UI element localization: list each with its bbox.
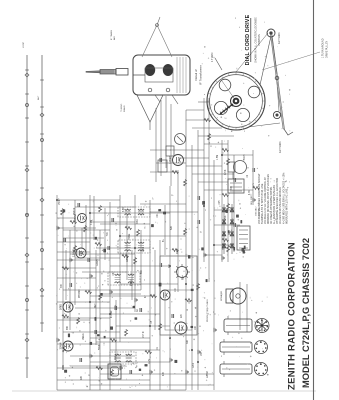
svg-text:100: 100	[175, 287, 177, 292]
svg-text:DET: DET	[95, 303, 97, 308]
svg-text:.02: .02	[189, 300, 191, 304]
svg-text:22K: 22K	[81, 375, 83, 380]
svg-text:1MEG: 1MEG	[83, 333, 85, 340]
svg-text:180: 180	[201, 351, 203, 356]
svg-text:POSITION: POSITION	[258, 34, 261, 46]
svg-text:Detail of: Detail of	[194, 69, 198, 80]
svg-text:.01: .01	[157, 346, 159, 350]
svg-text:DC UNLESS OTHERWISE NOTED.: DC UNLESS OTHERWISE NOTED.	[271, 186, 273, 224]
svg-text:OTHERWISE SPECIFIED. ALL CAPAC: OTHERWISE SPECIFIED. ALL CAPACITOR	[276, 177, 279, 224]
svg-text:1/2 TURN: 1/2 TURN	[277, 32, 281, 44]
svg-text:455 KC: 455 KC	[259, 208, 261, 216]
svg-text:.001: .001	[157, 213, 159, 218]
svg-text:LOOP: LOOP	[23, 41, 25, 48]
svg-text:IF TRANS: IF TRANS	[110, 30, 113, 40]
svg-text:DIAL CORD DRIVE: DIAL CORD DRIVE	[245, 14, 251, 65]
svg-text:OSC: OSC	[137, 219, 139, 224]
svg-text:CON: CON	[63, 365, 65, 370]
svg-text:117V: 117V	[149, 358, 151, 364]
svg-text:1200: 1200	[193, 362, 195, 368]
svg-text:39K: 39K	[187, 339, 189, 344]
svg-text:ANT: ANT	[37, 95, 40, 100]
svg-text:12BE6: 12BE6	[168, 156, 172, 164]
svg-text:.02: .02	[247, 174, 249, 178]
svg-text:270: 270	[169, 263, 171, 268]
svg-text:IF Transformer: IF Transformer	[199, 65, 203, 85]
svg-text:47K: 47K	[163, 371, 165, 376]
svg-text:.05: .05	[151, 320, 153, 324]
svg-text:VOL: VOL	[225, 215, 227, 220]
svg-text:470K: 470K	[225, 169, 227, 175]
svg-text:PHONO: PHONO	[79, 289, 81, 298]
svg-text:VOLTAGES MEASURED FROM TUBE SO: VOLTAGES MEASURED FROM TUBE SOCKET	[258, 173, 261, 224]
svg-text:B+: B+	[163, 238, 165, 242]
svg-text:12BA6: 12BA6	[73, 214, 77, 222]
svg-text:220K: 220K	[177, 248, 179, 254]
svg-text:ZENITH RADIO CORPORATION: ZENITH RADIO CORPORATION	[287, 242, 298, 390]
svg-text:117V: 117V	[253, 183, 255, 188]
svg-text:.005: .005	[219, 200, 221, 205]
svg-text:1.5M: 1.5M	[217, 155, 219, 160]
svg-text:47: 47	[145, 295, 147, 298]
svg-text:ADJ: ADJ	[113, 36, 116, 40]
svg-text:AC: AC	[136, 308, 139, 312]
svg-text:1/2 TURN: 1/2 TURN	[278, 141, 282, 153]
svg-text:150K: 150K	[59, 199, 61, 205]
svg-text:33K: 33K	[231, 185, 233, 190]
svg-text:MINIMUM. NO SIGNAL INPUT. ALL: MINIMUM. NO SIGNAL INPUT. ALL VOLTAGES	[267, 174, 270, 224]
svg-text:OSC ADJ: OSC ADJ	[255, 207, 258, 216]
svg-text:.1: .1	[65, 243, 67, 246]
svg-text:12AV6: 12AV6	[96, 259, 99, 266]
svg-text:.047: .047	[113, 271, 115, 276]
svg-text:SPEAKER: SPEAKER	[220, 290, 223, 301]
svg-text:IF AMP: IF AMP	[110, 310, 113, 318]
svg-text:50C5: 50C5	[244, 154, 246, 160]
svg-text:MEASURED WITH 117V AC LINE.: MEASURED WITH 117V AC LINE.	[286, 188, 289, 224]
svg-text:K=1000 MEG=1,000,000 ALL VOL: K=1000 MEG=1,000,000 ALL VOLTAGES +/-10%	[283, 173, 286, 224]
svg-text:35W4: 35W4	[59, 342, 63, 349]
svg-text:VOLTAGE 117V AC. VOLUME CONTRO: VOLTAGE 117V AC. VOLUME CONTROL AT	[264, 177, 267, 224]
svg-text:12BA6: 12BA6	[206, 370, 209, 378]
svg-text:WAND: WAND	[123, 105, 126, 112]
svg-text:AVC: AVC	[114, 355, 117, 360]
svg-text:TUNING: TUNING	[121, 103, 123, 112]
svg-text:1500: 1500	[143, 246, 145, 252]
svg-text:SEL. RECT.: SEL. RECT.	[251, 193, 253, 205]
svg-text:PRODUCTION TUBES: PRODUCTION TUBES	[207, 299, 209, 322]
svg-text:MODEL C724L,P,G CHASSIS 7C: MODEL C724L,P,G CHASSIS 7C02	[301, 238, 311, 388]
svg-text:1K: 1K	[107, 232, 109, 235]
svg-text:1ST IF: 1ST IF	[143, 331, 145, 338]
svg-text:220: 220	[181, 313, 183, 318]
svg-text:12AV6: 12AV6	[72, 249, 76, 257]
svg-text:560: 560	[141, 269, 143, 274]
svg-text:TERMINALS TO B- WITH VTVM. LIN: TERMINALS TO B- WITH VTVM. LINE	[261, 183, 264, 224]
svg-text:82K: 82K	[171, 225, 173, 230]
svg-text:1 TURN AROUND: 1 TURN AROUND	[322, 38, 325, 58]
svg-text:68K: 68K	[67, 325, 69, 330]
svg-text:TONE: TONE	[129, 233, 131, 240]
svg-text:DRIVE PULLEY: DRIVE PULLEY	[326, 40, 329, 58]
svg-text:330: 330	[61, 283, 63, 288]
svg-text:12BE6: 12BE6	[127, 254, 129, 262]
svg-text:ALL RESISTORS 1/2 WATT UNLESS: ALL RESISTORS 1/2 WATT UNLESS	[273, 185, 276, 224]
svg-text:VALUES IN MF UNLESS MARKED.: VALUES IN MF UNLESS MARKED.	[279, 186, 282, 224]
